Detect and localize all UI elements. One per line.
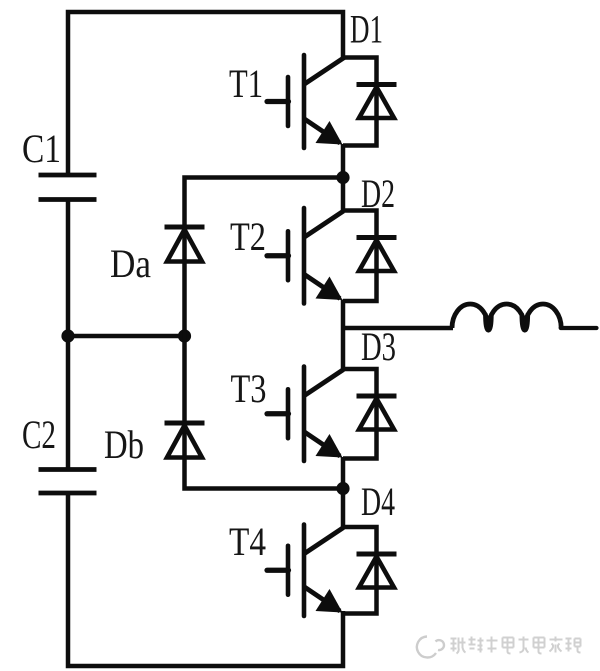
wire: output lead to inductor [343, 326, 453, 331]
node D2: junction dot T1/T2 [336, 171, 349, 184]
wire: T3 emitter to T4 collector [341, 457, 346, 529]
diode Db [165, 423, 205, 458]
wire: inductor to right edge [561, 326, 597, 330]
watermark logo (faint) [417, 637, 444, 658]
svg-text:C2: C2 [22, 412, 56, 457]
svg-text:C1: C1 [22, 126, 61, 171]
svg-text:Db: Db [104, 422, 144, 467]
diode D1 (antiparallel) [343, 58, 397, 146]
svg-text:D4: D4 [361, 479, 395, 524]
transistor T4 (IGBT) [267, 525, 344, 617]
svg-text:T3: T3 [231, 366, 267, 411]
node: junction dot on left rail (neutral) [61, 329, 74, 342]
svg-text:D1: D1 [350, 7, 383, 52]
node: junction dot on clamp branch (neutral) [178, 329, 191, 342]
diode Da [165, 227, 205, 262]
node D4: junction dot T3/T4 [336, 482, 349, 495]
diode D4 (antiparallel) [343, 527, 397, 614]
svg-text:T2: T2 [230, 214, 266, 259]
wire: neutral link from left rail to clamp branch [68, 334, 185, 339]
svg-text:T1: T1 [229, 61, 263, 106]
capacitor C2 [39, 470, 97, 494]
watermark text (faint) [451, 637, 581, 654]
diode D2 (antiparallel) [343, 211, 397, 302]
transistor T1 (IGBT) [267, 55, 344, 148]
wire: bottom rail from C2 to T4 emitter [68, 493, 343, 667]
inductor L (output filter) [452, 304, 561, 331]
svg-text:D3: D3 [361, 324, 396, 369]
wire: clamp branch (Da/Db leg) with horizontals to D2 and D4 nodes [185, 178, 342, 489]
wire: T1 emitter to T2 collector [341, 144, 346, 212]
wire: top rail from left rail to T1 collector [68, 12, 343, 175]
diode D3 (antiparallel) [343, 369, 397, 459]
wire: left rail between C1 and C2 [66, 200, 71, 471]
svg-text:T4: T4 [229, 519, 266, 564]
svg-text:Da: Da [110, 241, 151, 286]
transistor T3 (IGBT) [267, 367, 344, 462]
transistor T2 (IGBT) [267, 208, 344, 304]
wire: T2 emitter to T3 collector (output node) [341, 300, 346, 371]
capacitor C1 [39, 175, 97, 200]
